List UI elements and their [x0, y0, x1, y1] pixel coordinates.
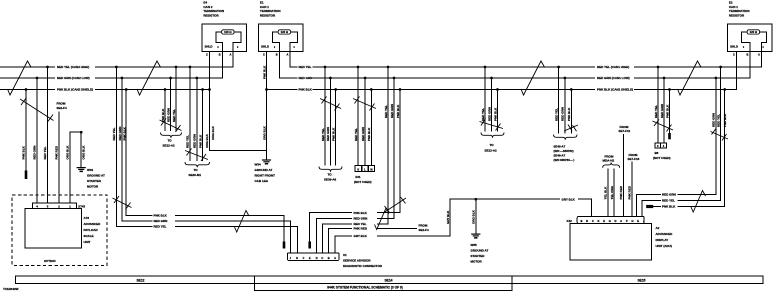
svg-text:RED GRN: RED GRN	[390, 104, 394, 118]
svg-text:SHLD: SHLD	[730, 45, 738, 49]
wire-break zigzag group F	[480, 119, 504, 131]
label E1	[260, 1, 281, 18]
svg-text:RED YEL: RED YEL	[481, 108, 485, 121]
wire PNK BLK group B	[202, 90, 204, 162]
svg-text:UNIT: UNIT	[84, 240, 91, 244]
svg-text:K: K	[357, 168, 359, 172]
brace group F	[481, 133, 504, 138]
svg-text:TO: TO	[490, 143, 495, 147]
wire ORG BLK A78 pin 1 to ground branch	[70, 132, 81, 203]
connector X743	[33, 203, 86, 209]
svg-text:R: R	[586, 219, 588, 223]
wire PNK RED SE7-F13 to X42	[631, 162, 633, 217]
wire-break zigzag group B8	[653, 120, 674, 132]
wire-break zigzag on bus at x=140	[137, 61, 161, 95]
wire ORG BLK down to W31 ground	[80, 132, 82, 167]
svg-text:PNK BLK (CAN2 SHIELD): PNK BLK (CAN2 SHIELD)	[57, 88, 93, 92]
svg-text:MOTOR: MOTOR	[87, 185, 99, 189]
terminator blunt cut PNK BLK at X1	[283, 242, 286, 249]
svg-text:FROM: FROM	[57, 101, 66, 105]
label ground W31	[87, 168, 105, 189]
wire-break zigzag group G	[564, 125, 578, 132]
wire RED GRN bus to X1 pin J	[122, 78, 291, 253]
terminator blunt cut PNK BLK near A78	[25, 171, 28, 180]
node tap RED YEL x=116	[115, 66, 118, 69]
node tap RED YEL group E	[387, 66, 390, 69]
wire YEL BLK MDA-H2 to X42	[607, 169, 609, 217]
svg-text:RED GRN: RED GRN	[712, 113, 716, 127]
svg-text:SE2-F4: SE2-F4	[57, 106, 68, 110]
svg-text:RED GRN: RED GRN	[299, 76, 313, 80]
svg-text:E: E	[603, 219, 605, 223]
wire YEL ORG MDA-H2 to X42	[613, 169, 615, 217]
wire-break zigzag on bus at x=520	[521, 61, 545, 95]
svg-text:PNK BLK: PNK BLK	[22, 145, 26, 159]
wire E4 pin C shield drop	[209, 52, 211, 90]
wire RED YEL bus to X1 pin H	[116, 67, 297, 253]
svg-text:RED YEL: RED YEL	[654, 105, 658, 118]
wire PNK BLK group C	[335, 90, 337, 166]
wire ORG BLK from E4 shield junction to W34 ground	[210, 90, 267, 151]
node tap RED GRN group C	[329, 77, 332, 80]
wire RED GRN bus to X42	[637, 78, 716, 217]
svg-text:W31: W31	[87, 168, 94, 172]
svg-text:H: H	[631, 219, 633, 223]
node tap RED GRN at x=37	[36, 77, 39, 80]
label ground W55	[471, 243, 489, 264]
wire E1 pin C PNK BLK / ORG BLK down to ground W34	[266, 52, 268, 160]
svg-text:SE39-A6: SE39-A6	[324, 178, 337, 182]
svg-text:RED YEL: RED YEL	[717, 114, 721, 127]
svg-text:UNIT (ADU): UNIT (ADU)	[656, 244, 672, 248]
node tap RED GRN group B	[195, 77, 198, 80]
wire CAN1 HIGH bus RED YEL (E1 pin A to E2 pin A)	[290, 52, 762, 68]
node tap RED GRN far right	[715, 77, 718, 80]
wire-break zigzag far left on bus	[8, 61, 32, 95]
wire-break zigzag group E verticals	[384, 197, 406, 213]
svg-text:K: K	[598, 219, 600, 223]
svg-text:X42: X42	[567, 219, 573, 223]
wire CAN1 SHIELD bus PNK BLK (E1 pin C to E2 pin C)	[267, 52, 737, 90]
label SE46-A7 serial numbers	[554, 145, 575, 163]
svg-text:E: E	[309, 256, 311, 260]
node tap RED YEL group D	[357, 66, 360, 69]
resistor E1 CAN 1 termination resistor	[259, 24, 304, 56]
svg-text:DISPLAY: DISPLAY	[656, 238, 669, 242]
svg-text:RED GRN: RED GRN	[487, 107, 491, 121]
wire CAN2 HIGH bus RED YEL (line 1 left segment, up to E4 pin A)	[0, 52, 233, 68]
svg-text:SHLD: SHLD	[261, 45, 269, 49]
node tap PNK BLK group A	[164, 88, 167, 91]
svg-text:PNK RED: PNK RED	[628, 185, 632, 199]
svg-text:PNK RED: PNK RED	[619, 185, 623, 199]
node tap RED YEL group G	[557, 66, 560, 69]
brace group C	[319, 167, 342, 172]
svg-text:RED GRN: RED GRN	[660, 104, 664, 118]
svg-text:PNK BLK: PNK BLK	[332, 127, 336, 141]
svg-text:STARTER: STARTER	[87, 179, 102, 183]
svg-text:RED YEL: RED YEL	[354, 222, 367, 226]
svg-text:(NOT USED): (NOT USED)	[653, 156, 671, 160]
bottom reference bar SE12 / SE14 / SE15	[16, 276, 764, 284]
svg-text:FROM: FROM	[419, 224, 428, 228]
brace group G	[554, 135, 578, 140]
svg-text:PNK BLK: PNK BLK	[161, 108, 165, 122]
bottom title cell	[254, 284, 512, 291]
svg-text:ORG BLK: ORG BLK	[82, 145, 86, 160]
svg-text:PNK BLK: PNK BLK	[367, 127, 371, 141]
label X1 SERVICE ADVISOR DIAGNOSTIC CONNECTOR	[343, 253, 383, 268]
svg-text:B: B	[747, 52, 749, 56]
svg-text:RED GRN: RED GRN	[361, 127, 365, 141]
svg-text:RED GRN: RED GRN	[118, 127, 122, 141]
svg-text:(NOT USED): (NOT USED)	[354, 180, 372, 184]
svg-text:PNK BLK: PNK BLK	[354, 211, 368, 215]
svg-text:STARTER: STARTER	[471, 254, 486, 258]
svg-text:GROUND AT: GROUND AT	[87, 174, 105, 178]
svg-text:OPTION: OPTION	[44, 259, 56, 263]
option dashed box	[12, 195, 107, 265]
svg-text:RED GRN: RED GRN	[166, 108, 170, 122]
svg-text:CAB LEG: CAB LEG	[255, 179, 269, 183]
wire GRY BLK X1 pin A to X42 via W55 junction	[335, 199, 591, 253]
svg-text:RED YEL: RED YEL	[354, 128, 358, 141]
svg-text:A: A	[620, 219, 622, 223]
svg-text:RED GRN: RED GRN	[193, 134, 197, 148]
node tap RED GRN group F	[490, 77, 493, 80]
node tap RED YEL group B	[189, 66, 192, 69]
connector X42	[567, 217, 646, 224]
svg-text:RED YEL: RED YEL	[299, 65, 312, 69]
wire-break zigzag group C	[320, 97, 341, 111]
svg-text:SE12: SE12	[136, 278, 144, 282]
node tap RED YEL far right	[719, 66, 722, 69]
label FROM MDA-H2	[603, 154, 615, 162]
svg-text:TX1R042W: TX1R042W	[3, 287, 19, 291]
svg-text:D: D	[614, 219, 616, 223]
wire RED GRN bus to X1 pin D	[317, 78, 394, 253]
svg-text:RED YEL: RED YEL	[172, 109, 176, 122]
node tap PNK BLK B8	[668, 88, 671, 91]
svg-text:PNK BLK (CAN1 SHIELD): PNK BLK (CAN1 SHIELD)	[597, 88, 633, 92]
svg-text:GRY BLK: GRY BLK	[562, 197, 576, 201]
svg-text:B: B	[581, 219, 583, 223]
svg-text:C: C	[321, 256, 323, 260]
svg-text:ORG BLK: ORG BLK	[472, 209, 476, 224]
node tap RED GRN x=122	[121, 77, 124, 80]
node junction E1 shield on CAN1 shield bus	[265, 88, 268, 91]
svg-text:RED GRN: RED GRN	[154, 219, 168, 223]
svg-text:PNK BLK: PNK BLK	[198, 134, 202, 148]
ground W31 symbol	[77, 167, 86, 172]
svg-text:SERVICE ADVISOR: SERVICE ADVISOR	[343, 259, 371, 263]
connector X31 (NOT USED)	[354, 166, 375, 184]
svg-text:H: H	[296, 256, 298, 260]
svg-text:PNK BLK: PNK BLK	[665, 104, 669, 118]
svg-text:A: A	[758, 52, 760, 56]
svg-text:RED GRN: RED GRN	[326, 127, 330, 141]
svg-text:PNK BLK: PNK BLK	[154, 214, 168, 218]
resistor E2 CAN 1 termination resistor	[728, 24, 773, 56]
svg-text:RESISTOR: RESISTOR	[729, 14, 745, 18]
wire-break zigzag on X1 right horizontals	[375, 208, 390, 230]
node tap PNK BLK group C	[334, 88, 337, 91]
svg-text:A: A	[230, 52, 232, 56]
wire PNK BLK bus to blunt cut near X42	[653, 90, 725, 207]
wire RED YEL group F	[484, 67, 486, 132]
label FROM SE2-F4 right	[419, 224, 430, 233]
svg-text:MOTOR: MOTOR	[471, 260, 483, 264]
svg-text:D: D	[316, 256, 318, 260]
node tap RED YEL group A	[175, 66, 178, 69]
unit A78 ADVANCED PAYLOAD SCALE UNIT	[25, 209, 101, 248]
node tap RED YEL group C	[324, 66, 327, 69]
svg-text:X31: X31	[355, 175, 361, 179]
svg-text:SE12-A2: SE12-A2	[163, 144, 176, 148]
svg-text:GRY BLK: GRY BLK	[354, 234, 368, 238]
wire-break zigzag group B	[185, 149, 208, 162]
node tap RED GRN B8	[663, 77, 666, 80]
svg-text:PNK BLK: PNK BLK	[299, 88, 313, 92]
svg-text:RED GRN: RED GRN	[561, 107, 565, 121]
ground W55 symbol	[471, 234, 480, 239]
svg-text:PNK BLK: PNK BLK	[567, 107, 571, 121]
wire RED GRN to B8 pin 4	[663, 78, 665, 143]
svg-text:SE15: SE15	[637, 278, 645, 282]
label E2	[729, 1, 750, 18]
ground W34 symbol	[262, 159, 271, 164]
node junction E4 shield / CAN2 shield end	[208, 88, 211, 91]
wire RED YEL group C	[324, 67, 326, 166]
wire-break zigzag on CAN1 bus at x=680	[678, 61, 702, 95]
connector B8 (NOT USED)	[653, 143, 671, 160]
wire CAN2 SHIELD bus PNK BLK (line 3 left segment)	[0, 89, 210, 91]
wire RED YEL group B	[189, 67, 191, 161]
svg-text:ORG BLK: ORG BLK	[205, 133, 209, 148]
wire ORG BLK down to W55 ground	[475, 199, 477, 233]
svg-text:TO: TO	[168, 139, 173, 143]
svg-text:W55: W55	[471, 243, 478, 247]
svg-text:B: B	[219, 52, 221, 56]
svg-text:GRY BLK: GRY BLK	[446, 210, 450, 224]
terminator blunt cut PNK BLK near X42	[646, 205, 653, 208]
svg-text:SE14: SE14	[384, 278, 392, 282]
svg-text:ORG BLK: ORG BLK	[66, 145, 70, 160]
node tap PNK BLK group B	[201, 88, 204, 91]
unit A2 ADVANCED DISPLAY UNIT (ADU)	[570, 224, 673, 261]
svg-text:120 Ω: 120 Ω	[224, 30, 232, 34]
svg-text:RED YEL: RED YEL	[384, 105, 388, 118]
wire PNK BLK group G	[570, 90, 572, 134]
svg-text:ORG BLK: ORG BLK	[262, 125, 266, 140]
wire PNK BLK group F	[497, 90, 499, 132]
wire PNK BLK stub to blunt cut	[25, 90, 27, 171]
wire PNK BLK stub to blunt cut at B8	[669, 90, 671, 134]
wire-break zigzag on X1 left feed horizontals	[235, 211, 250, 233]
label ground W34	[255, 163, 276, 184]
wire RED GRN group G	[564, 78, 566, 134]
svg-text:GROUND AT: GROUND AT	[471, 249, 489, 253]
node tap PNK BLK x=126	[125, 88, 128, 91]
wire PNK RED SE7-F11 to X42	[622, 134, 624, 217]
node tap RED YEL group F	[484, 66, 487, 69]
svg-text:SE7-F11: SE7-F11	[619, 129, 631, 133]
node tap RED GRN group D	[364, 77, 367, 80]
svg-text:MDA-H2: MDA-H2	[603, 158, 615, 162]
wire RED GRN to X31 pin L	[364, 78, 366, 166]
svg-text:RED GRN: RED GRN	[33, 146, 37, 160]
svg-text:SE46-A7: SE46-A7	[554, 145, 566, 149]
label TO SE26-M1	[189, 168, 202, 177]
node tap RED GRN group G	[564, 77, 567, 80]
svg-text:844K SYSTEM FUNCTIONAL SCHEMAT: 844K SYSTEM FUNCTIONAL SCHEMATIC (3 OF 9…	[327, 286, 403, 290]
terminator blunt cut PNK BLK right of X1	[308, 242, 311, 249]
wire PNK BLK to X31 pin M	[370, 90, 372, 166]
node junction ORG BLK ground W31	[80, 131, 83, 134]
svg-text:120 Ω: 120 Ω	[281, 30, 289, 34]
svg-text:PNK BLK: PNK BLK	[662, 205, 676, 209]
wire RED GRN group F	[491, 78, 493, 132]
svg-text:(S/N —636762): (S/N —636762)	[554, 149, 574, 153]
svg-text:DIAGNOSTIC CONNECTOR: DIAGNOSTIC CONNECTOR	[343, 264, 383, 268]
svg-text:RED GRN (CAN2 LOW): RED GRN (CAN2 LOW)	[57, 76, 90, 80]
svg-text:SHLD: SHLD	[205, 45, 213, 49]
svg-text:PNK BLK: PNK BLK	[262, 65, 266, 79]
svg-text:RED GRN: RED GRN	[354, 217, 368, 221]
node tap PNK BLK group D	[370, 88, 373, 91]
svg-text:RED YEL: RED YEL	[662, 199, 675, 203]
svg-text:SE46-A7: SE46-A7	[554, 154, 566, 158]
svg-text:RED YEL: RED YEL	[154, 225, 167, 229]
label FROM SE7-F11	[619, 125, 631, 133]
wire RED YEL to A78 pin 3	[47, 67, 49, 203]
svg-text:RED YEL (CAN2 HIGH): RED YEL (CAN2 HIGH)	[57, 65, 89, 69]
wire-break zigzag group A	[160, 119, 182, 133]
node tap PNK BLK far right	[723, 88, 726, 91]
wire RED YEL bus to X42	[642, 67, 721, 217]
node tap PNK BLK group G	[570, 88, 573, 91]
svg-text:E: E	[637, 219, 639, 223]
svg-text:TO: TO	[328, 173, 333, 177]
svg-text:SE2-F4: SE2-F4	[419, 228, 430, 232]
svg-text:RED YEL (CAN1 HIGH): RED YEL (CAN1 HIGH)	[597, 65, 629, 69]
node tap RED GRN group A	[169, 77, 172, 80]
wire RED YEL to B8 pin 3	[657, 67, 659, 143]
svg-text:RESISTOR: RESISTOR	[260, 14, 276, 18]
svg-text:PNK BLK: PNK BLK	[122, 126, 126, 140]
wire-break zigzag far right verticals	[711, 129, 729, 141]
svg-text:(S/N 636763— ): (S/N 636763— )	[554, 158, 575, 162]
svg-text:A2: A2	[656, 226, 660, 230]
svg-text:C: C	[733, 52, 735, 56]
svg-text:X1: X1	[343, 253, 347, 257]
svg-text:SE26-M1: SE26-M1	[189, 173, 202, 177]
svg-text:RED YEL: RED YEL	[321, 128, 325, 141]
terminator blunt cut PNK BLK at B8	[668, 133, 671, 139]
wire-break zigzag on X1 left feed verticals	[113, 196, 132, 210]
node tap RED YEL at x=47.5	[46, 66, 49, 69]
wire PNK BLK bus to blunt cut at X1	[126, 90, 284, 242]
brace group B	[185, 162, 210, 167]
svg-text:SE7-F13: SE7-F13	[628, 157, 640, 161]
svg-text:SCALE: SCALE	[84, 234, 94, 238]
wire PNK RED from SE2-F4 to A78 pin 2	[58, 112, 60, 204]
svg-text:P: P	[626, 219, 628, 223]
node tap PNK BLK group E	[399, 88, 402, 91]
wire PNK BLK bus to blunt cut at X1	[310, 90, 400, 242]
svg-text:PNK RED: PNK RED	[55, 145, 59, 159]
wire PNK BLK group A	[164, 90, 166, 132]
svg-text:TO: TO	[194, 168, 199, 172]
node tap PNK BLK group F	[496, 88, 499, 91]
label TO SE12-A2 right	[485, 143, 498, 153]
brace group A	[161, 133, 182, 138]
label FROM SE2-F4	[57, 101, 68, 110]
wire RED YEL group G	[558, 67, 560, 134]
svg-text:A78: A78	[84, 216, 90, 220]
svg-text:RED GRN: RED GRN	[662, 193, 676, 197]
wire-break zigzag on far right horizontals	[691, 191, 706, 213]
svg-text:B8: B8	[655, 151, 659, 155]
wire RED GRN group A	[170, 78, 172, 131]
label TO SE12-A2	[163, 139, 176, 148]
label E4	[203, 1, 224, 18]
connector X1 SERVICE ADVISOR DIAGNOSTIC CONNECTOR	[288, 253, 340, 261]
svg-text:RED YEL: RED YEL	[554, 108, 558, 121]
wire RED GRN to A78 pin 4	[36, 78, 38, 203]
svg-text:RED YEL: RED YEL	[43, 146, 47, 159]
svg-text:120 Ω: 120 Ω	[750, 30, 758, 34]
wire RED YEL bus to X1 pin C	[322, 67, 388, 253]
svg-text:RESISTOR: RESISTOR	[203, 14, 219, 18]
svg-text:PAYLOAD: PAYLOAD	[84, 228, 99, 232]
brace FROM MDA-H2	[603, 163, 620, 168]
svg-text:PNK RED: PNK RED	[354, 227, 368, 231]
svg-text:PNK BLK: PNK BLK	[493, 107, 497, 121]
svg-text:YEL BLK: YEL BLK	[604, 186, 608, 200]
wire RED GRN group C	[329, 78, 331, 166]
svg-text:PNK BLK: PNK BLK	[396, 104, 400, 118]
svg-text:X743: X743	[78, 205, 85, 209]
svg-text:W34: W34	[255, 163, 262, 167]
node tap PNK BLK at x=26	[25, 88, 28, 91]
svg-text:B: B	[276, 52, 278, 56]
svg-text:ORG BLK: ORG BLK	[211, 125, 215, 140]
wire CAN1 LOW bus RED GRN (E1 pin B to E2 pin B)	[279, 52, 750, 79]
svg-text:B: B	[328, 256, 330, 260]
wire CAN2 LOW bus RED GRN (line 2 left segment, up to E4 pin B)	[0, 52, 222, 79]
node tap RED GRN group E	[393, 77, 396, 80]
svg-text:C: C	[206, 52, 208, 56]
svg-text:C: C	[263, 52, 265, 56]
svg-text:YEL ORG: YEL ORG	[610, 185, 614, 199]
wire-break zigzag on A78 drop wires	[20, 98, 54, 123]
label TO SE39-A6	[324, 173, 337, 182]
svg-text:A: A	[287, 52, 289, 56]
wire-break zigzag group D	[353, 97, 376, 111]
svg-text:M: M	[370, 168, 372, 172]
svg-text:ADVANCED: ADVANCED	[84, 222, 102, 226]
svg-text:C: C	[592, 219, 594, 223]
svg-text:RED YEL: RED YEL	[112, 127, 116, 140]
label FROM SE7-F13	[628, 153, 640, 161]
node tap RED YEL B8	[657, 66, 660, 69]
svg-text:SE12-A2: SE12-A2	[485, 149, 498, 153]
svg-text:RED YEL: RED YEL	[186, 135, 190, 148]
svg-text:A: A	[334, 256, 336, 260]
svg-text:G: G	[609, 219, 611, 223]
svg-text:RED GRN (CAN1 LOW): RED GRN (CAN1 LOW)	[597, 76, 630, 80]
